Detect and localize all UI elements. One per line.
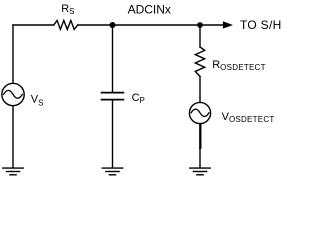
junction node ADCINx xyxy=(110,22,116,28)
resistor R1 (Rs zigzag) xyxy=(54,20,78,29)
ground (middle, under Cp) xyxy=(102,168,124,175)
source V1 (Vs circle) xyxy=(2,83,24,105)
junction node at Rosdetect branch xyxy=(197,22,203,28)
capacitor C1 (Cp top plate) xyxy=(102,92,124,94)
wire left vertical xyxy=(12,25,14,83)
source V2 (Vosdetect circle) xyxy=(189,102,210,123)
sine wave Vs xyxy=(4,90,23,98)
wire below Vs xyxy=(12,106,14,168)
capacitor C1 (Cp bottom plate) xyxy=(102,99,124,101)
wire middle vertical above Cp xyxy=(112,25,114,92)
wire top-left horizontal xyxy=(13,24,54,26)
wire between Rosdetect and Vosdetect xyxy=(199,77,201,103)
ground (left, under Vs) xyxy=(2,168,24,175)
wire top horizontal to arrow xyxy=(78,24,224,26)
wire below Cp xyxy=(112,100,114,167)
resistor R2 (Rosdetect zigzag) xyxy=(195,47,204,77)
wire right vertical above Rosdetect xyxy=(199,25,201,47)
arrowhead TO S/H xyxy=(223,22,232,28)
wire below Vosdetect (thick upper part) xyxy=(199,125,201,148)
sine wave Vosdetect xyxy=(191,109,209,116)
svg-text:ADCINx: ADCINx xyxy=(128,3,171,17)
wire below Vosdetect (thin lower part) xyxy=(199,148,201,168)
svg-text:TO S/H: TO S/H xyxy=(240,18,282,32)
ground (right, under Vosdetect) xyxy=(189,168,211,175)
